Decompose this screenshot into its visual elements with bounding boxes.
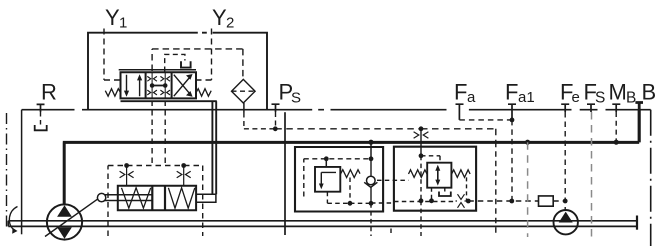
pressure valve PV2 square: [427, 163, 451, 188]
wire: pilot through restrictor into block 2: [420, 129, 422, 156]
wire: RV1 square top stub: [325, 159, 327, 167]
directional valve V1: left position arrows: [127, 75, 140, 96]
node: dot PV2 pilot top: [419, 153, 424, 158]
node: junction dot pressure line tap: [525, 140, 530, 145]
port Fa label: [454, 80, 476, 107]
svg-text:2: 2: [226, 15, 234, 32]
fixed pump P2 circle: [554, 210, 578, 234]
reservoir symbol below R: [35, 125, 47, 130]
wire: PS pilot branch dashed below pressure line: [495, 142, 497, 236]
variable pump P1 lower triangle: [57, 227, 72, 239]
stroking cylinder rod to pump swash link: [105, 195, 152, 201]
port MB label: [609, 80, 637, 107]
variable pump P1 swash diagonal arrow: [45, 199, 98, 237]
node: dot block2 drain left: [419, 198, 424, 203]
drive shaft right end bar: [636, 216, 638, 230]
pressure valve PV2 right spring: [451, 170, 470, 178]
node: dot RV1 top right: [369, 156, 374, 161]
wire: drain line dashed to right pump suction: [468, 200, 565, 202]
wire: filter outlet down: [243, 103, 245, 113]
directional valve V1: subplate line: [121, 100, 217, 102]
port MB tick: [612, 104, 620, 112]
wire: PS dashed down to junction: [275, 112, 277, 129]
node: dot drain Fa1 junction: [509, 199, 514, 204]
node: dot block2 drain mid: [429, 198, 434, 203]
variable pump P1 outlet triangle: [57, 205, 72, 217]
node: dot Fa1 junction: [510, 118, 515, 123]
check valve CV1 (circle on seat): [367, 176, 376, 185]
node: dot above RV1: [324, 156, 329, 161]
wire: PV2 pilot dashed top to square: [421, 156, 440, 163]
svg-text:B: B: [626, 90, 636, 107]
wire: block2 drain row dashed: [371, 202, 455, 204]
port Fa1 label: [505, 80, 535, 107]
port R tick: [37, 104, 45, 112]
wire: check valve line vertical: [370, 159, 372, 204]
svg-text:1: 1: [119, 15, 127, 32]
relief valve RV1 square: [315, 167, 340, 192]
wire: main pressure line pump to port B (thick): [63, 110, 639, 204]
wire: stroking-cylinder pilot manifold dashed box: [108, 166, 203, 237]
svg-text:F: F: [505, 80, 518, 105]
svg-text:a: a: [467, 89, 476, 106]
port B label: [642, 80, 657, 105]
stroking cylinder right port boss: [196, 194, 216, 202]
directional valve V1: body 3 positions: [121, 72, 197, 98]
wire: pilot dashed from valve port up and over to filter: [152, 49, 243, 79]
svg-text:Y: Y: [212, 5, 227, 30]
block 1 enclosure (relief valve cartridge): [295, 147, 383, 212]
port PS tick: [272, 104, 280, 112]
svg-text:S: S: [291, 90, 301, 107]
wire: PV2 left pilot dashed down: [420, 156, 422, 201]
stroking cylinder left spring: [122, 188, 151, 208]
boundary: power-unit top chain line: [22, 109, 651, 111]
svg-text:a1: a1: [518, 89, 535, 106]
orifice plug on drain line: [539, 196, 554, 206]
wire: pilot dashed from valve port up to connector: [165, 54, 185, 71]
wire: Y2 pilot dashed line to valve right solenoid: [197, 29, 212, 81]
port Fa tick: [456, 104, 464, 120]
svg-text:M: M: [609, 80, 627, 105]
wire: RV1 inlet from pressure line: [370, 142, 372, 159]
port B thick stub: [635, 103, 643, 142]
port FS tick: [587, 104, 595, 112]
reservoir symbol under PV2: [444, 188, 446, 192]
port R label: [41, 80, 57, 105]
wire: Fe dashed down to right pump: [564, 112, 566, 210]
stroking cylinder body: [118, 186, 196, 211]
svg-text:F: F: [454, 80, 467, 105]
node: dot right pilot: [181, 163, 186, 168]
drive shaft rotation arrow: [9, 207, 17, 231]
node: dot check valve bottom: [369, 201, 374, 206]
restrictor right (chevrons) above cylinder: [177, 166, 191, 186]
boundary: left thin vertical line: [21, 110, 23, 235]
port label Y1: [105, 5, 127, 32]
node: dot drain row block1: [348, 201, 353, 206]
svg-text:R: R: [41, 80, 57, 105]
filter F1 mesh dashed: [232, 90, 256, 92]
port Fe label: [560, 80, 580, 107]
wire: RV1 pilot dashed top row: [304, 159, 371, 197]
boundary: right chain vertical: [650, 110, 652, 246]
wire: PS suction line down to pump area: [284, 112, 286, 235]
wire: valve A line dashed down: [151, 101, 153, 166]
restrictor left (chevrons) above cylinder: [120, 166, 134, 186]
enclosure: valve sub-assembly solid rectangle: [88, 33, 267, 110]
wire: RV1 spring chamber drain dashed: [349, 178, 351, 204]
wire: valve work lines down to subplate (double solid): [212, 101, 216, 194]
pressure valve PV2 internal double arrow: [437, 169, 439, 183]
svg-text:S: S: [595, 90, 605, 107]
pressure valve PV2 left spring: [409, 170, 428, 178]
relief valve RV1 spring: [340, 170, 360, 178]
wire: pilot dashed PS manifold run to the right: [275, 129, 496, 142]
stroking cylinder right spring: [168, 188, 194, 208]
variable pump P1 circle: [47, 204, 82, 239]
stroking cylinder piston: [152, 186, 165, 211]
port Fa1 tick: [508, 104, 516, 120]
wire: block2 drain down below: [420, 201, 422, 236]
directional valve V1: cover line above body: [119, 69, 196, 71]
directional valve V1: centre position port lines with orifices and A-B bridge: [152, 72, 165, 98]
wire: block1 drain down below: [370, 203, 372, 236]
svg-text:e: e: [572, 89, 580, 106]
node: dot left pilot: [124, 163, 129, 168]
restrictor on drain line (vertical chevrons): [456, 194, 468, 208]
port Fe tick: [561, 104, 569, 112]
wire: RV1 bottom stub dashed to drain row: [327, 192, 350, 204]
wire: filter outlet dashed to PS junction: [244, 113, 275, 129]
port label Y2: [212, 5, 234, 32]
restrictor on vertical pilot line (chevrons): [414, 132, 429, 138]
wire: valve B line dashed down: [164, 101, 166, 166]
wire: gray tap line from pressure line down: [527, 142, 529, 237]
boundary: far-left chain vertical: [6, 113, 8, 228]
wire: check valve out dashed to block 2 spring: [377, 179, 409, 181]
relief valve RV1 internal arrow: [321, 172, 336, 185]
directional valve V1: right position crossed arrows: [174, 75, 191, 97]
block 2 enclosure (pressure control cartridge): [394, 147, 476, 211]
directional valve V1: right centering spring: [196, 89, 211, 97]
node: dot drain at restrictor: [466, 199, 471, 204]
port FS label: [584, 80, 606, 107]
wire: PV2 spring chamber drain dashed: [467, 177, 469, 201]
stroking cylinder rod end eye: [97, 193, 105, 201]
wire: Fa dashed link to Fa1: [459, 119, 511, 121]
fixed pump P2 outlet triangle: [559, 212, 573, 223]
wire: R drain dashed: [40, 112, 42, 126]
wire: drain row dashed to check valve line: [350, 202, 371, 204]
wire: gray FS line down: [591, 112, 593, 237]
wire: Fa1 dashed down to drain line: [511, 120, 513, 201]
directional valve V1: left centering spring: [105, 89, 120, 97]
wire: cylinder pilot stubs below shaft: [390, 229, 392, 237]
node: dot right pump inlet: [563, 199, 568, 204]
drive shaft (double line with end bars): [8, 221, 637, 227]
node: junction dot above restrictor: [419, 126, 424, 131]
node: junction dot MB gauge line: [614, 140, 619, 145]
wire: PV2 bottom port dashed stub: [431, 188, 433, 201]
svg-text:B: B: [642, 80, 657, 105]
wire: MB gauge dashed down to pressure line: [615, 112, 617, 141]
wire: Y1 pilot dashed line to valve left solenoid: [104, 29, 120, 81]
node: PS junction dot: [273, 126, 278, 131]
port PS label: [279, 80, 302, 107]
solenoid plug connector symbol above valve: [180, 61, 192, 67]
filter F1 diamond: [232, 79, 256, 103]
svg-text:Y: Y: [105, 5, 120, 30]
node: junction dot pressure line to block 1: [368, 140, 373, 145]
